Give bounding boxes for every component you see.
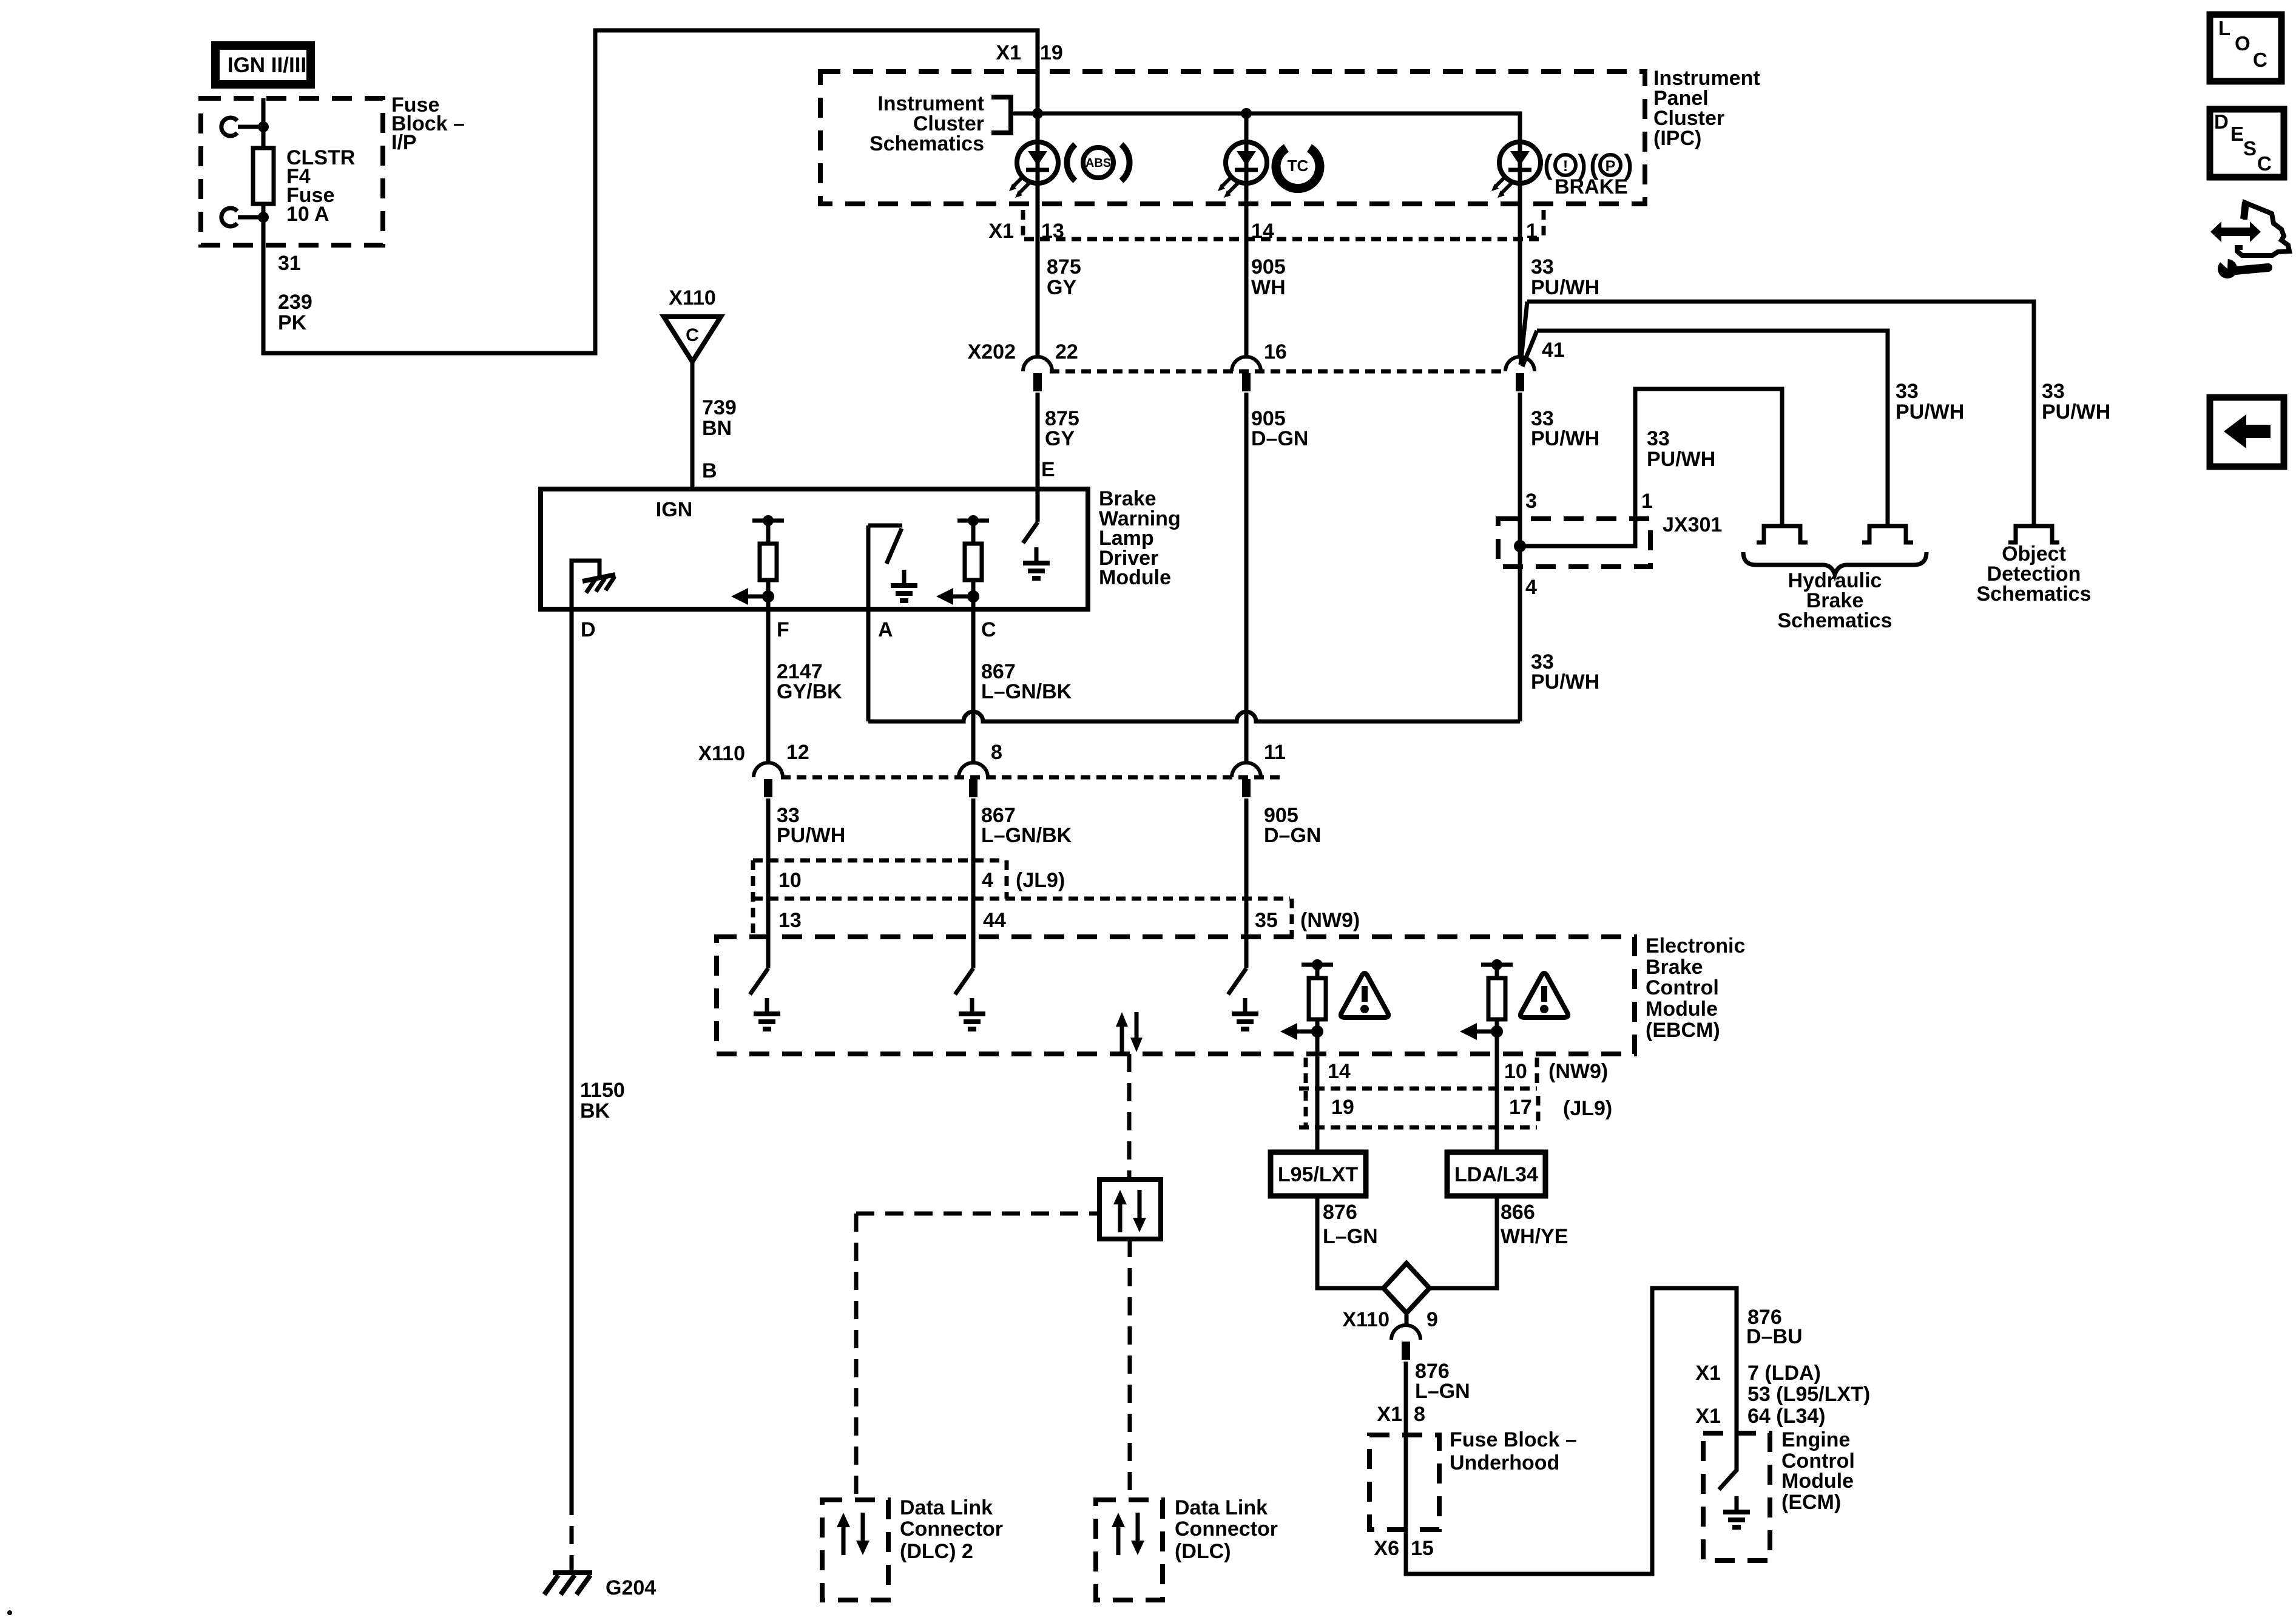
svg-text:876: 876: [1323, 1201, 1357, 1224]
svg-text:10: 10: [1504, 1060, 1527, 1083]
svg-text:Module: Module: [1099, 566, 1171, 589]
svg-text:8: 8: [1414, 1403, 1425, 1426]
svg-text:S: S: [2243, 137, 2257, 160]
svg-text:1150: 1150: [580, 1079, 625, 1102]
svg-text:D: D: [2214, 110, 2229, 133]
svg-text:19: 19: [1331, 1096, 1354, 1119]
svg-text:WH: WH: [1251, 276, 1286, 299]
svg-text:(DLC) 2: (DLC) 2: [900, 1540, 973, 1563]
svg-text:(NW9): (NW9): [1548, 1060, 1608, 1083]
svg-text:15: 15: [1411, 1537, 1434, 1560]
svg-text:O: O: [2235, 32, 2250, 55]
svg-text:X110: X110: [1342, 1308, 1389, 1331]
svg-text:X1: X1: [1377, 1403, 1402, 1426]
svg-text:16: 16: [1264, 340, 1287, 363]
svg-text:L–GN: L–GN: [1415, 1380, 1470, 1403]
svg-text:BN: BN: [702, 417, 732, 440]
svg-text:C: C: [686, 325, 699, 345]
svg-text:44: 44: [983, 909, 1006, 932]
svg-text:GY/BK: GY/BK: [777, 680, 842, 703]
svg-text:E: E: [1041, 458, 1055, 481]
svg-text:L–GN/BK: L–GN/BK: [981, 680, 1072, 703]
svg-text:33: 33: [1896, 380, 1919, 403]
svg-text:X1: X1: [988, 220, 1014, 243]
svg-text:PU/WH: PU/WH: [1531, 427, 1599, 450]
svg-text:35: 35: [1255, 909, 1278, 932]
svg-text:31: 31: [278, 252, 301, 275]
svg-text:Brake: Brake: [1646, 956, 1703, 979]
svg-text:GY: GY: [1047, 276, 1076, 299]
svg-text:X1: X1: [1695, 1405, 1721, 1428]
svg-text:(NW9): (NW9): [1300, 909, 1360, 932]
svg-text:905: 905: [1251, 255, 1286, 279]
svg-text:BK: BK: [580, 1099, 610, 1122]
svg-text:4: 4: [982, 869, 993, 892]
svg-text:Schematics: Schematics: [1977, 582, 2092, 606]
svg-text:D–GN: D–GN: [1251, 427, 1308, 450]
svg-text:Fuse Block –: Fuse Block –: [1450, 1428, 1577, 1451]
svg-text:64 (L34): 64 (L34): [1747, 1405, 1826, 1428]
svg-text:(EBCM): (EBCM): [1646, 1019, 1720, 1042]
svg-text:Connector: Connector: [1175, 1517, 1278, 1541]
svg-text:(JL9): (JL9): [1563, 1097, 1612, 1120]
svg-text:(IPC): (IPC): [1653, 127, 1701, 150]
svg-text:4: 4: [1525, 576, 1537, 599]
svg-text:C: C: [981, 618, 996, 641]
svg-text:10 A: 10 A: [286, 203, 329, 226]
svg-text:11: 11: [1264, 741, 1286, 764]
svg-text:8: 8: [991, 741, 1002, 764]
svg-text:C: C: [2253, 49, 2267, 71]
svg-text:L–GN: L–GN: [1323, 1225, 1378, 1248]
svg-text:L95/LXT: L95/LXT: [1278, 1163, 1358, 1186]
svg-text:IGN II/III: IGN II/III: [228, 53, 306, 77]
svg-text:739: 739: [702, 396, 737, 419]
svg-text:X1: X1: [996, 41, 1021, 64]
svg-text:X110: X110: [669, 286, 716, 309]
svg-text:G204: G204: [606, 1576, 656, 1599]
svg-text:33: 33: [1647, 427, 1670, 450]
svg-text:14: 14: [1328, 1060, 1351, 1083]
svg-text:Control: Control: [1646, 976, 1719, 999]
svg-text:Underhood: Underhood: [1450, 1451, 1559, 1474]
svg-text:3: 3: [1525, 490, 1537, 513]
svg-text:E: E: [2230, 123, 2244, 145]
svg-text:1: 1: [1641, 490, 1653, 513]
svg-text:X110: X110: [698, 742, 745, 765]
svg-text:9: 9: [1427, 1308, 1438, 1331]
svg-text:C: C: [2257, 152, 2272, 175]
svg-text:Engine: Engine: [1781, 1428, 1850, 1451]
svg-text:239: 239: [278, 291, 312, 314]
svg-text:10: 10: [778, 869, 802, 892]
svg-text:7 (LDA): 7 (LDA): [1747, 1362, 1821, 1385]
svg-text:D–GN: D–GN: [1264, 824, 1321, 847]
svg-text:33: 33: [2042, 380, 2065, 403]
svg-text:1: 1: [1526, 220, 1538, 243]
svg-text:Data Link: Data Link: [900, 1496, 993, 1519]
svg-text:JX301: JX301: [1663, 513, 1722, 536]
svg-text:875: 875: [1047, 255, 1081, 279]
svg-text:PU/WH: PU/WH: [1531, 276, 1599, 299]
svg-text:A: A: [878, 618, 893, 641]
svg-text:(: (: [1543, 149, 1553, 180]
svg-text:12: 12: [786, 741, 809, 764]
svg-text:PU/WH: PU/WH: [1896, 400, 1964, 424]
svg-text:B: B: [702, 459, 717, 482]
svg-text:13: 13: [1041, 220, 1064, 243]
svg-text:33: 33: [1531, 255, 1554, 279]
svg-text:PU/WH: PU/WH: [1531, 670, 1599, 694]
svg-text:19: 19: [1040, 41, 1063, 64]
svg-text:Module: Module: [1781, 1470, 1854, 1493]
svg-text:L–GN/BK: L–GN/BK: [981, 824, 1072, 847]
svg-text:13: 13: [778, 909, 802, 932]
svg-text:F: F: [777, 618, 789, 641]
svg-text:!: !: [1563, 158, 1568, 175]
svg-text:14: 14: [1251, 220, 1274, 243]
svg-text:IGN: IGN: [656, 498, 692, 521]
svg-text:Schematics: Schematics: [869, 132, 984, 155]
svg-text:22: 22: [1055, 340, 1078, 363]
svg-text:41: 41: [1542, 339, 1565, 362]
svg-text:PU/WH: PU/WH: [2042, 400, 2110, 424]
svg-text:GY: GY: [1045, 427, 1075, 450]
svg-text:X6: X6: [1374, 1537, 1399, 1560]
svg-text:17: 17: [1509, 1096, 1532, 1119]
svg-text:PK: PK: [278, 311, 307, 334]
svg-text:L: L: [2218, 17, 2230, 39]
svg-text:Module: Module: [1646, 998, 1718, 1021]
svg-text:X202: X202: [968, 340, 1016, 363]
svg-text:BRAKE: BRAKE: [1555, 175, 1628, 198]
svg-text:Data Link: Data Link: [1175, 1496, 1268, 1519]
svg-text:866: 866: [1501, 1201, 1535, 1224]
svg-text:ABS: ABS: [1086, 157, 1111, 170]
svg-text:D: D: [581, 618, 596, 641]
svg-text:(ECM): (ECM): [1781, 1491, 1841, 1514]
svg-text:WH/YE: WH/YE: [1501, 1225, 1568, 1248]
svg-text:I/P: I/P: [391, 131, 417, 154]
svg-text:PU/WH: PU/WH: [1647, 448, 1715, 471]
svg-text:Schematics: Schematics: [1778, 609, 1893, 632]
svg-text:D–BU: D–BU: [1746, 1325, 1803, 1348]
svg-text:Connector: Connector: [900, 1517, 1003, 1541]
svg-text:(JL9): (JL9): [1016, 869, 1065, 892]
svg-text:LDA/L34: LDA/L34: [1454, 1163, 1538, 1186]
svg-text:PU/WH: PU/WH: [777, 824, 845, 847]
svg-text:X1: X1: [1695, 1362, 1721, 1385]
svg-text:P: P: [1606, 158, 1616, 175]
svg-text:Electronic: Electronic: [1646, 934, 1745, 957]
svg-text:53 (L95/LXT): 53 (L95/LXT): [1747, 1383, 1870, 1406]
svg-text:TC: TC: [1288, 157, 1309, 175]
svg-text:(DLC): (DLC): [1175, 1540, 1231, 1563]
